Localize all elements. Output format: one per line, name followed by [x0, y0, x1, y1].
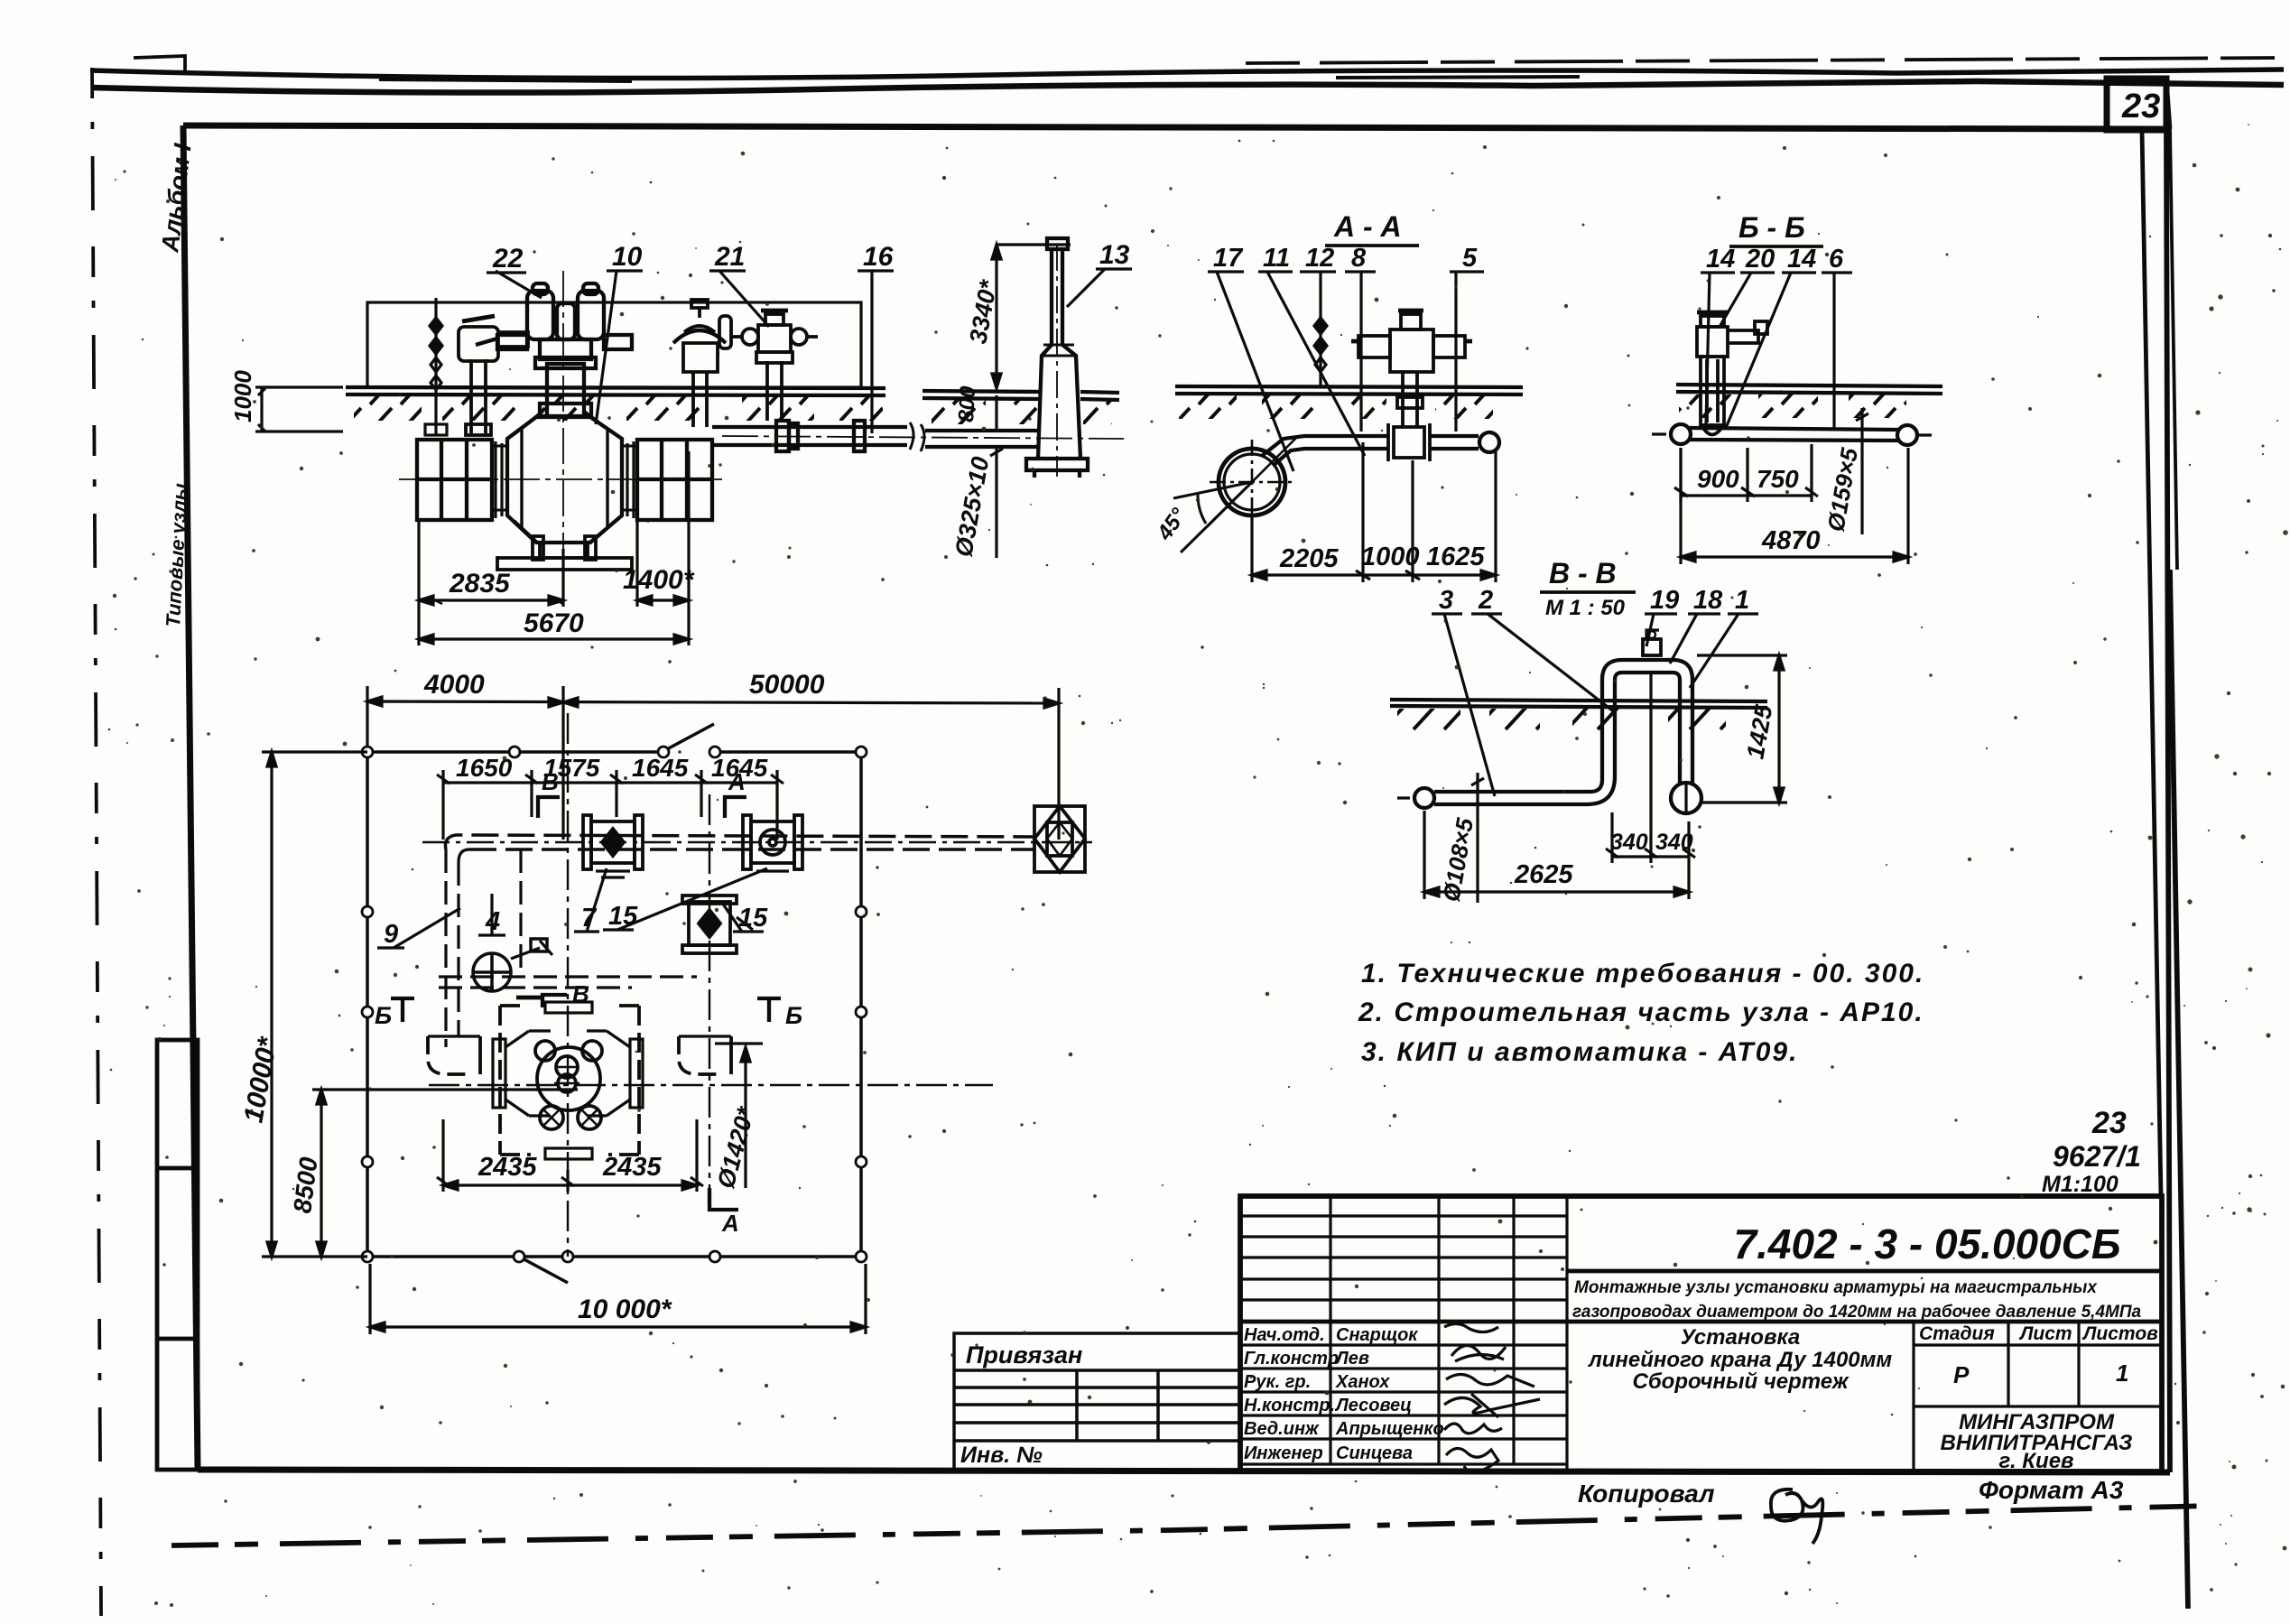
small valve on pipe (pos 8) [1388, 423, 1430, 461]
svg-text:Вед.инж: Вед.инж [1244, 1419, 1320, 1439]
svg-text:Инженер: Инженер [1244, 1443, 1323, 1463]
svg-text:2625: 2625 [1514, 860, 1573, 889]
ground line left segment [346, 387, 1119, 400]
section mark В top [538, 768, 560, 818]
svg-text:А: А [721, 1210, 739, 1237]
svg-text:2: 2 [1478, 586, 1493, 615]
page number box 23 [2107, 79, 2166, 130]
svg-text:14: 14 [1787, 245, 1816, 274]
buried pipeline from valve to right [712, 421, 1038, 451]
svg-text:А: А [728, 768, 746, 795]
section mark Б left [375, 998, 414, 1029]
svg-text:Б: Б [375, 1002, 392, 1029]
svg-text:14: 14 [1706, 245, 1735, 274]
svg-text:Рук. гр.: Рук. гр. [1244, 1372, 1311, 1392]
svg-text:Ханох: Ханох [1335, 1372, 1390, 1392]
section header Б-Б [1729, 211, 1823, 246]
callout 4 [478, 894, 505, 936]
section header А-А [1325, 210, 1419, 246]
svg-text:М 1 : 50: М 1 : 50 [1545, 596, 1626, 620]
svg-text:Лесовец: Лесовец [1334, 1396, 1412, 1415]
dimension 5670 [419, 608, 689, 644]
svg-text:В: В [542, 768, 559, 795]
svg-text:М1:100: М1:100 [2042, 1172, 2118, 1197]
right flange block [637, 440, 712, 520]
plan valve 7 on pipeline [583, 815, 643, 877]
middle riser valve with handwheel (pos 8) [673, 300, 731, 427]
dimension 8500 vertical [288, 1090, 578, 1257]
callout 9 [377, 908, 460, 949]
organisation [1941, 1410, 2133, 1473]
callout 15 right [722, 903, 768, 933]
central ball valve plan [493, 1002, 643, 1159]
svg-text:Привязан: Привязан [966, 1341, 1082, 1369]
svg-text:20: 20 [1745, 245, 1775, 274]
section mark В mid [542, 980, 589, 1007]
name of drawing [1588, 1325, 1893, 1394]
svg-text:Стадия: Стадия [1919, 1323, 1995, 1344]
svg-text:18: 18 [1693, 586, 1723, 615]
svg-text:23: 23 [2121, 88, 2160, 125]
ground hatching [1397, 709, 1726, 731]
leader callout 16 [858, 242, 894, 433]
dimension 2835 [419, 520, 563, 645]
svg-text:1000: 1000 [229, 370, 256, 422]
svg-text:12: 12 [1305, 244, 1334, 273]
section mark А bottom [709, 1188, 739, 1237]
standpipe with valve (pos 20) [1697, 312, 1767, 435]
svg-text:50000: 50000 [749, 670, 825, 700]
svg-text:9: 9 [384, 920, 398, 949]
svg-text:газопроводах диаметром до 1420: газопроводах диаметром до 1420мм на рабо… [1572, 1303, 2142, 1322]
SECTION A-A [1152, 210, 1523, 582]
left branch line dashed [439, 849, 697, 1047]
svg-text:2205: 2205 [1279, 544, 1339, 573]
small valve pos 19 on top [1643, 630, 1661, 655]
dimensions 2205 1000 1625 [1252, 442, 1496, 582]
ground hatching [1679, 394, 1906, 418]
svg-text:6: 6 [1829, 245, 1844, 274]
ground line [1175, 386, 1523, 394]
dimension 1000 (left vertical) [229, 370, 343, 432]
svg-text:В - В: В - В [1549, 557, 1617, 589]
svg-text:22: 22 [492, 244, 524, 274]
actuator manifold (pos 22) [476, 283, 632, 359]
leader callout 22 [487, 244, 542, 298]
leader callout 10 [596, 242, 643, 424]
svg-text:Апрыщенко: Апрыщенко [1335, 1419, 1444, 1439]
svg-text:2835: 2835 [449, 569, 511, 599]
svg-text:Лист: Лист [2018, 1323, 2072, 1344]
dimension Ø108x5 [1437, 773, 1484, 904]
top dimension 4000 / 50000 [367, 670, 1059, 840]
svg-text:10 000*: 10 000* [578, 1295, 672, 1324]
elbow down left [428, 1036, 480, 1074]
svg-text:19: 19 [1650, 586, 1679, 615]
svg-text:В: В [572, 980, 589, 1007]
dimension 800 vertical [954, 385, 997, 431]
signature rows text [1244, 1325, 1444, 1463]
scan artifact: bottom dashed line [172, 1506, 2211, 1545]
dimension 4870 [1681, 448, 1908, 564]
svg-text:3: 3 [1439, 586, 1453, 615]
section mark А top [725, 768, 746, 818]
svg-text:340: 340 [1610, 830, 1648, 855]
dimensions 1650 1575 1645 1645 [437, 754, 783, 840]
centerlines of plan [429, 713, 993, 1257]
stage table [1914, 1322, 2162, 1471]
dimension 1400* [623, 451, 695, 645]
ball valve main body (pos 10) [399, 271, 1124, 596]
leader callout 21 [709, 242, 769, 327]
SECTION В-В [1390, 557, 1787, 904]
svg-text:Н.констр.: Н.констр. [1244, 1396, 1335, 1415]
bottom drain of valve [497, 536, 632, 570]
svg-text:750: 750 [1757, 465, 1799, 493]
svg-text:Сборочный чертеж: Сборочный чертеж [1632, 1369, 1849, 1394]
svg-text:8: 8 [1351, 244, 1367, 273]
dimension 340 340 [1606, 673, 1695, 863]
svg-text:1. Технические требования - 0: 1. Технические требования - 00. 300. [1361, 959, 1924, 988]
svg-text:Б: Б [785, 1002, 802, 1029]
ground hatching [354, 396, 1112, 424]
svg-text:23: 23 [2091, 1106, 2127, 1140]
svg-text:3. КИП и автоматика - АТ09.: 3. КИП и автоматика - АТ09. [1361, 1037, 1798, 1067]
horizontal pipe with ball ends [1652, 424, 1932, 445]
dimension 10000* left vertical [238, 752, 367, 1257]
svg-text:11: 11 [1263, 244, 1290, 273]
left signature table [1240, 1196, 1567, 1471]
dimension Ø159x5 [1822, 408, 1868, 534]
ground hatching [1179, 395, 1493, 419]
fence posts [362, 747, 867, 1262]
svg-text:5670: 5670 [524, 608, 584, 638]
SECTION Б-Б [1652, 211, 1942, 564]
plan valve 15 on branch vertical [682, 896, 753, 953]
thin outline box around assembly [367, 302, 861, 387]
svg-text:4000: 4000 [423, 670, 485, 700]
left flange block [417, 440, 492, 520]
svg-text:1645: 1645 [632, 754, 689, 782]
scan artifact: left dashed margin line [92, 68, 101, 1616]
signature scribbles [1444, 1323, 1540, 1471]
notes list [1358, 959, 1924, 1067]
outer border [1240, 1196, 2162, 1471]
elbow and horizontal pipe [1262, 432, 1499, 466]
left riser with valve (pos 22 leader side) [459, 316, 528, 435]
pipe cross-section circle Ø1420 [1207, 437, 1297, 527]
TITLE BLOCK [954, 1196, 2162, 1473]
svg-text:линейного крана Ду 1400мм: линейного крана Ду 1400мм [1588, 1348, 1893, 1372]
svg-text:2435: 2435 [602, 1153, 662, 1182]
svg-text:800: 800 [954, 385, 980, 422]
svg-text:Формат А3: Формат А3 [1979, 1476, 2124, 1504]
svg-text:7.402 - 3 - 05.000СБ: 7.402 - 3 - 05.000СБ [1734, 1220, 2121, 1267]
description two lines [1572, 1278, 2142, 1322]
MAIN ELEVATION VIEW [229, 238, 1132, 645]
svg-text:Монтажные узлы установки армат: Монтажные узлы установки арматуры на маг… [1574, 1278, 2098, 1297]
valve neck / stem column [535, 357, 596, 416]
callout 7 15 [574, 868, 767, 933]
dimension 3340* vertical right [964, 245, 1071, 388]
scan artifact: top edge band [90, 56, 2284, 93]
left attachment table (Привязан) [954, 1333, 1240, 1471]
svg-text:г. Киев: г. Киев [1998, 1449, 2073, 1473]
ground line [1390, 700, 1767, 708]
level gauge chain (left thin riser) [425, 298, 447, 435]
svg-text:21: 21 [714, 242, 745, 272]
dimension 2625 [1424, 811, 1689, 899]
dimension 1425 [1697, 655, 1787, 803]
svg-text:1000: 1000 [1361, 543, 1420, 571]
svg-text:Гл.констр: Гл.констр [1244, 1349, 1339, 1369]
svg-text:17: 17 [1213, 244, 1244, 273]
section mark Б right [757, 998, 802, 1029]
dimension 2435 2435 [437, 1119, 703, 1192]
svg-text:900: 900 [1697, 465, 1739, 493]
riser and top valve (pos 5) [1351, 311, 1472, 427]
svg-text:4870: 4870 [1761, 526, 1821, 555]
candle pipe route [1397, 660, 1701, 814]
section header В-В / М1:50 [1540, 557, 1636, 620]
callouts 14 20 14 6 [1701, 245, 1852, 428]
callouts 17 11 12 8 5 [1208, 244, 1484, 471]
sheet id 23 / 9627/1 / M1:100 [2042, 1106, 2141, 1197]
svg-text:5: 5 [1462, 244, 1478, 273]
svg-text:340: 340 [1655, 830, 1693, 855]
svg-text:2. Строительная часть узла -: 2. Строительная часть узла - АР10. [1358, 998, 1924, 1027]
svg-text:А - А: А - А [1333, 210, 1402, 243]
svg-text:1400*: 1400* [623, 565, 695, 595]
svg-text:16: 16 [863, 242, 894, 272]
plan valve 15 on pipeline right [743, 815, 802, 871]
45 deg angle mark [1152, 482, 1252, 552]
svg-text:15: 15 [738, 904, 768, 933]
PLAN VIEW [238, 670, 1092, 1334]
ground line [1676, 385, 1942, 394]
dimension 900 750 [1674, 444, 1818, 502]
svg-text:10: 10 [612, 242, 643, 272]
svg-text:Лев: Лев [1334, 1349, 1369, 1369]
leader callout 13 [1067, 240, 1132, 307]
svg-text:9627/1: 9627/1 [2053, 1140, 2141, 1173]
fence rectangle with posts [367, 724, 861, 1283]
dimension Ø325x10 vertical [950, 447, 1003, 559]
vent stack (pos 13) [1026, 238, 1088, 478]
svg-text:Инв. №: Инв. № [960, 1443, 1043, 1468]
level chain (pos 12) [1314, 316, 1327, 386]
small handwheel valve on branch [473, 939, 552, 998]
svg-text:Нач.отд.: Нач.отд. [1244, 1325, 1325, 1345]
svg-text:Б - Б: Б - Б [1738, 211, 1805, 244]
svg-text:1: 1 [1735, 586, 1749, 615]
svg-text:Р: Р [1953, 1361, 1970, 1388]
svg-text:Снарщок: Снарщок [1336, 1325, 1418, 1345]
svg-text:Установка: Установка [1681, 1325, 1801, 1350]
dimension 10000* bottom [370, 1264, 866, 1334]
left margin frame boxes [157, 1040, 198, 1470]
main gas pipeline dashed [422, 835, 1092, 849]
vent valve riser (pos 21) [731, 311, 818, 421]
svg-text:Копировал: Копировал [1578, 1480, 1715, 1508]
elbow down right [679, 1036, 731, 1074]
callouts 3 2 19 18 1 [1432, 586, 1758, 796]
anchor marker at pipeline end [1034, 806, 1085, 872]
svg-text:1625: 1625 [1426, 543, 1485, 571]
svg-text:1: 1 [2116, 1360, 2128, 1387]
dimension Ø1420* [712, 1044, 763, 1192]
signature scribble below [1771, 1489, 1822, 1544]
svg-text:Синцева: Синцева [1336, 1443, 1413, 1463]
svg-text:13: 13 [1099, 240, 1130, 270]
svg-text:2435: 2435 [477, 1153, 537, 1182]
svg-text:Листов: Листов [2081, 1323, 2158, 1344]
